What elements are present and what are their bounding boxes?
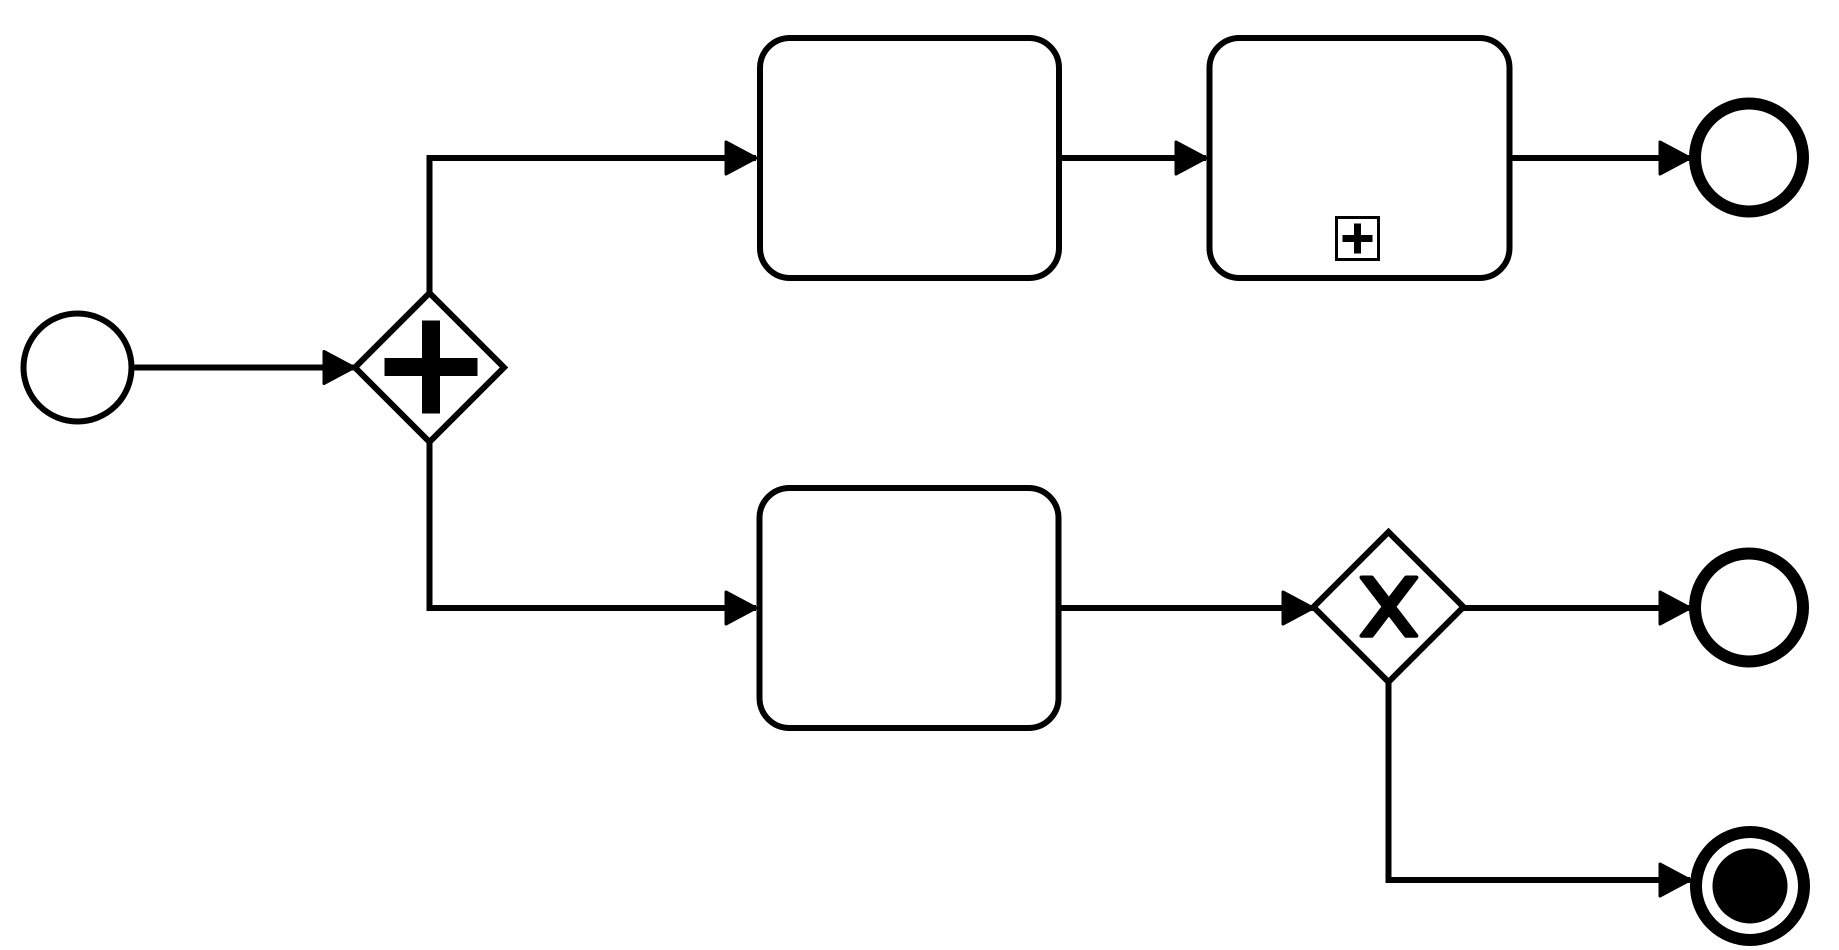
wire subprocess to end event 1 [1510, 155, 1691, 161]
terminate end event [1696, 832, 1804, 940]
wire exclusive gateway to end event 2 [1464, 605, 1691, 611]
wire task 1 to subprocess [1059, 155, 1206, 161]
start event [24, 314, 132, 422]
exclusive gateway [1314, 532, 1464, 682]
collapsed subprocess task [1210, 38, 1510, 278]
task 2 [760, 488, 1059, 728]
wire exclusive gateway to terminate end event [1389, 682, 1691, 880]
task 1 [760, 38, 1059, 278]
wire start to parallel gateway [135, 365, 355, 371]
end event 1 [1695, 104, 1803, 212]
subprocess plus marker [1337, 218, 1379, 260]
parallel gateway [355, 293, 504, 442]
wire task 2 to exclusive gateway [1059, 605, 1314, 611]
wire gateway to task 1 [430, 158, 757, 293]
end event 2 [1695, 554, 1803, 662]
wire gateway to task 2 [430, 442, 757, 608]
